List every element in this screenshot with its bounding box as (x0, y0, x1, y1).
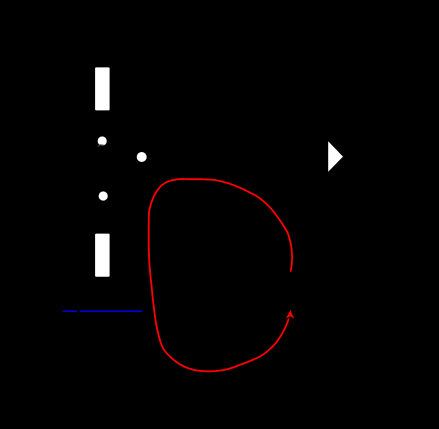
current loop (red curve) (149, 179, 292, 371)
wire (blue line segment left) (63, 310, 77, 312)
charge dot 1 (98, 136, 107, 145)
pen smudge under charge dot 1 (98, 145, 104, 147)
wire (blue line segment right) (80, 310, 142, 312)
capacitor plate (bottom white bar) (95, 234, 110, 277)
charge dot 2 (137, 152, 147, 162)
charge dot 3 (99, 191, 108, 200)
capacitor plate (top white bar) (95, 67, 110, 110)
triangle marker (white arrow) (328, 141, 343, 172)
current direction arrowhead (red) (286, 310, 294, 319)
